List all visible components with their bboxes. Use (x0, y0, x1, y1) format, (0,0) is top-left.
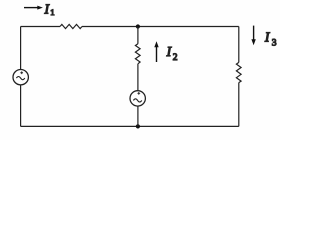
current arrow I1 (points right, above top-left wire) (24, 6, 43, 10)
wire top horizontal (node A to top-right corner) (138, 26, 239, 28)
wire right rail upper (top-right corner down to resistor R3) (238, 27, 240, 63)
svg-text:1: 1 (50, 7, 54, 17)
wire middle branch (R2 to source V2) (137, 64, 139, 91)
resistor R2 (middle vertical zigzag) (135, 44, 140, 64)
resistor R1 (top horizontal zigzag) (60, 24, 82, 28)
svg-text:I: I (166, 44, 173, 59)
node A (junction dot, top of middle branch) (136, 24, 140, 28)
svg-text:3: 3 (272, 39, 277, 49)
wire top-left horizontal (left rail top to resistor R1) (21, 26, 60, 28)
current arrow I3 (points down, right of right rail) (251, 26, 255, 46)
wire top horizontal (R1 to node A) (82, 26, 138, 28)
node B (junction dot, bottom of middle branch) (136, 124, 140, 128)
svg-text:I: I (264, 30, 271, 45)
resistor R3 (right vertical zigzag) (236, 62, 241, 82)
wire bottom horizontal (bottom-left corner to node B) (21, 125, 138, 127)
voltage source V1 (AC source, left branch) (13, 70, 28, 85)
wire bottom horizontal (node B to bottom-right corner) (138, 125, 239, 127)
wire right rail lower (R3 to bottom-right corner) (238, 83, 240, 127)
voltage source V2 (AC source, middle branch) (130, 91, 145, 106)
wire middle branch lower (source V2 to node B) (137, 106, 139, 126)
svg-text:2: 2 (173, 53, 178, 63)
wire left rail lower (source V1 to bottom-left corner) (20, 85, 22, 127)
wire left rail upper (corner down to source V1) (20, 27, 22, 70)
current arrow I2 (points up, right of resistor R2) (154, 41, 158, 62)
wire middle branch upper (node A down to resistor R2) (137, 27, 139, 44)
